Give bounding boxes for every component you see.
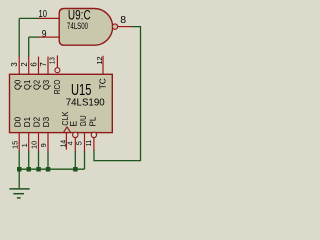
pin D2 (10) stub bbox=[38, 133, 40, 152]
svg-text:11: 11 bbox=[84, 140, 93, 146]
junction dot D0/gnd bbox=[17, 167, 22, 172]
gate output pin 8 stub bbox=[118, 26, 132, 28]
gate input pin 10 stub bbox=[39, 17, 59, 19]
svg-text:9: 9 bbox=[42, 29, 47, 40]
svg-text:D0: D0 bbox=[13, 116, 22, 127]
svg-text:D2: D2 bbox=[33, 116, 42, 127]
svg-text:TC: TC bbox=[98, 78, 107, 89]
pin E (4) stub bbox=[74, 137, 76, 151]
junction dot D3 bbox=[46, 167, 51, 172]
svg-text:74LS190: 74LS190 bbox=[66, 97, 105, 109]
pin Q3 (7) stub bbox=[47, 57, 49, 75]
wire D2 to bus bbox=[38, 151, 40, 169]
svg-text:9: 9 bbox=[39, 143, 48, 147]
svg-text:12: 12 bbox=[95, 56, 104, 64]
wire Q1 vertical bbox=[28, 37, 30, 57]
svg-text:1: 1 bbox=[20, 143, 29, 147]
svg-text:D/U: D/U bbox=[79, 115, 88, 126]
svg-text:E: E bbox=[68, 121, 78, 127]
svg-text:3: 3 bbox=[10, 62, 19, 66]
wire ground bus bbox=[19, 168, 84, 170]
pin E (4) bubble bbox=[73, 132, 78, 137]
svg-text:Q1: Q1 bbox=[23, 79, 32, 90]
pin PL (11) stub bbox=[93, 137, 95, 150]
svg-text:Q3: Q3 bbox=[42, 79, 51, 90]
svg-text:Q2: Q2 bbox=[33, 79, 42, 90]
wire to ground bbox=[18, 169, 20, 188]
wire D/U to bus bbox=[84, 151, 86, 169]
IC U15 body bbox=[10, 74, 113, 132]
pin D0 (15) stub bbox=[18, 133, 20, 152]
wire E to bus bbox=[74, 151, 76, 169]
pin TC (12) stub bbox=[102, 56, 104, 75]
svg-text:74LS00: 74LS00 bbox=[67, 21, 88, 31]
svg-text:D3: D3 bbox=[42, 116, 51, 127]
pin Q0 (3) stub bbox=[18, 57, 20, 75]
gate input pin 9 stub bbox=[39, 36, 59, 38]
wire gate output feedback bbox=[94, 27, 141, 161]
svg-text:5: 5 bbox=[74, 141, 83, 145]
svg-text:PL: PL bbox=[89, 116, 98, 126]
pin D/U (5) stub bbox=[84, 133, 86, 152]
svg-text:13: 13 bbox=[47, 57, 56, 64]
pin RCO bubble bbox=[55, 68, 60, 73]
op-amp gate U9:C body bbox=[59, 9, 112, 46]
pin PL (11) bubble bbox=[91, 132, 96, 137]
junction dot E bbox=[73, 167, 78, 172]
junction dot D2 bbox=[36, 167, 41, 172]
svg-text:RCO: RCO bbox=[53, 80, 62, 95]
wire Q1 to gate input 9 (horizontal) bbox=[29, 36, 40, 38]
svg-text:Q0: Q0 bbox=[13, 79, 22, 90]
pin RCO (13) stub bbox=[56, 55, 58, 67]
wire Q0 to gate input 10 (horizontal) bbox=[19, 17, 39, 19]
pin CLK (14) stub bbox=[65, 133, 67, 150]
wire D1 to bus bbox=[28, 151, 30, 169]
svg-text:15: 15 bbox=[10, 141, 19, 149]
pin D1 (1) stub bbox=[28, 133, 30, 152]
wire D3 to bus bbox=[47, 151, 49, 169]
wire D0 to bus bbox=[18, 151, 20, 169]
ground bbox=[9, 188, 29, 190]
pin Q1 (2) stub bbox=[28, 57, 30, 75]
svg-text:6: 6 bbox=[30, 62, 39, 66]
gate output bubble bbox=[112, 24, 117, 29]
pin Q2 (6) stub bbox=[38, 57, 40, 75]
junction dot D1 bbox=[27, 167, 32, 172]
svg-text:10: 10 bbox=[30, 141, 39, 149]
svg-text:4: 4 bbox=[65, 141, 74, 145]
wire Q0 vertical bbox=[18, 18, 20, 57]
svg-text:D1: D1 bbox=[23, 116, 32, 127]
pin D3 (9) stub bbox=[47, 133, 49, 152]
svg-text:2: 2 bbox=[20, 62, 29, 66]
clock triangle bbox=[64, 127, 71, 132]
svg-text:8: 8 bbox=[120, 14, 126, 26]
